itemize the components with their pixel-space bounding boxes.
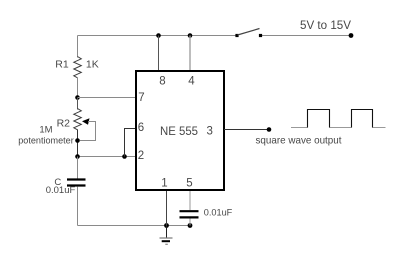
svg-text:1M: 1M xyxy=(39,124,52,135)
svg-text:5V to 15V: 5V to 15V xyxy=(300,20,351,32)
svg-text:4: 4 xyxy=(188,76,195,88)
svg-text:3: 3 xyxy=(206,125,212,137)
svg-text:0.01uF: 0.01uF xyxy=(46,185,76,196)
svg-text:1K: 1K xyxy=(86,59,99,71)
svg-text:8: 8 xyxy=(159,76,165,88)
svg-text:R2: R2 xyxy=(57,117,71,129)
svg-text:7: 7 xyxy=(138,92,144,104)
svg-text:0.01uF: 0.01uF xyxy=(204,208,233,219)
svg-text:NE 555: NE 555 xyxy=(160,124,198,138)
svg-text:5: 5 xyxy=(186,178,192,190)
svg-text:R1: R1 xyxy=(55,59,69,71)
svg-text:6: 6 xyxy=(138,122,144,134)
svg-text:potentiometer: potentiometer xyxy=(18,136,74,147)
svg-text:1: 1 xyxy=(161,178,167,190)
svg-text:2: 2 xyxy=(138,150,144,162)
svg-text:square wave output: square wave output xyxy=(256,135,342,147)
